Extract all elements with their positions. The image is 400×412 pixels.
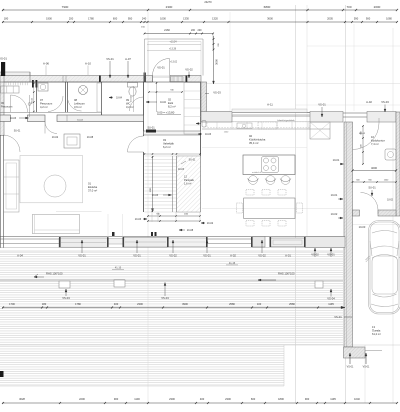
- svg-text:41,15: 41,15: [115, 267, 122, 270]
- svg-text:A-02: A-02: [366, 100, 372, 104]
- svg-text:10-02: 10-02: [52, 136, 59, 139]
- svg-text:240: 240: [142, 16, 147, 20]
- svg-text:600: 600: [113, 16, 118, 20]
- svg-text:SU-01: SU-01: [14, 131, 21, 133]
- svg-text:10-04: 10-04: [116, 98, 123, 100]
- svg-text:VS-01: VS-01: [106, 57, 114, 61]
- svg-text:200: 200: [198, 29, 203, 32]
- svg-text:2200: 2200: [79, 397, 85, 401]
- svg-text:61,2 m²: 61,2 m²: [372, 332, 381, 336]
- svg-text:6,2 m²: 6,2 m²: [163, 145, 171, 149]
- svg-text:mööbel all: mööbel all: [252, 172, 262, 174]
- svg-text:1195: 1195: [328, 302, 334, 306]
- svg-text:900: 900: [366, 16, 371, 20]
- svg-text:VS-04: VS-04: [327, 297, 335, 301]
- svg-text:10-03: 10-03: [152, 194, 159, 197]
- svg-text:1780: 1780: [75, 302, 81, 306]
- svg-text:A-11: A-11: [267, 103, 273, 107]
- svg-text:7,4 m²: 7,4 m²: [371, 142, 379, 146]
- svg-text:A-10: A-10: [85, 62, 91, 66]
- svg-text:3600: 3600: [267, 16, 273, 20]
- svg-text:4000: 4000: [371, 166, 377, 170]
- svg-text:10-08: 10-08: [87, 136, 94, 139]
- svg-text:900: 900: [305, 397, 310, 401]
- svg-text:VS-02: VS-02: [311, 253, 319, 257]
- svg-text:3900: 3900: [182, 302, 188, 306]
- svg-text:VS-04: VS-04: [161, 296, 169, 300]
- svg-text:0.00 = +13,80: 0.00 = +13,80: [157, 111, 175, 115]
- svg-text:2580: 2580: [229, 302, 235, 306]
- svg-text:590: 590: [354, 16, 359, 20]
- svg-text:+13,38: +13,38: [169, 49, 177, 51]
- svg-text:A-01: A-01: [285, 254, 291, 258]
- svg-text:Leiliruum: Leiliruum: [74, 102, 86, 106]
- svg-text:35,4 m²: 35,4 m²: [249, 141, 259, 145]
- svg-text:1040: 1040: [354, 397, 360, 401]
- svg-text:24270: 24270: [204, 0, 212, 4]
- svg-text:VS-01: VS-01: [327, 253, 335, 257]
- svg-text:VS-01: VS-01: [203, 254, 211, 258]
- svg-text:3,6 m²: 3,6 m²: [74, 105, 82, 109]
- svg-text:Esik: Esik: [168, 101, 174, 105]
- svg-text:VS-01: VS-01: [363, 366, 370, 369]
- svg-text:2300: 2300: [169, 397, 175, 401]
- svg-text:1800: 1800: [278, 397, 284, 401]
- svg-text:A-06: A-06: [43, 62, 49, 66]
- svg-text:37,0 m²: 37,0 m²: [88, 189, 97, 193]
- svg-text:RHS 100*100: RHS 100*100: [278, 272, 295, 276]
- svg-text:3028: 3028: [19, 397, 25, 401]
- svg-text:10-02: 10-02: [331, 212, 338, 216]
- svg-text:7900: 7900: [62, 5, 69, 9]
- svg-text:2300: 2300: [137, 302, 143, 306]
- svg-text:600: 600: [361, 144, 363, 147]
- svg-text:1000: 1000: [160, 16, 166, 20]
- svg-text:10-02: 10-02: [207, 222, 214, 225]
- svg-text:900: 900: [361, 131, 363, 134]
- svg-text:1780: 1780: [88, 16, 94, 20]
- svg-text:200: 200: [69, 16, 74, 20]
- svg-text:SU-01: SU-01: [189, 159, 196, 162]
- svg-text:2300: 2300: [166, 5, 173, 9]
- svg-text:10-04: 10-04: [77, 120, 83, 122]
- svg-text:1330: 1330: [183, 16, 189, 20]
- svg-text:950: 950: [128, 16, 133, 20]
- svg-text:VS-01: VS-01: [133, 254, 141, 258]
- svg-text:SU-01: SU-01: [147, 126, 155, 130]
- svg-text:VS-02: VS-02: [258, 254, 266, 258]
- svg-text:01: 01: [88, 182, 91, 186]
- svg-text:6800: 6800: [264, 5, 271, 9]
- svg-text:1320: 1320: [212, 16, 218, 20]
- svg-text:10-02: 10-02: [160, 102, 167, 104]
- svg-text:700: 700: [346, 5, 351, 9]
- svg-text:Vahekäik: Vahekäik: [163, 142, 175, 146]
- svg-text:100: 100: [257, 302, 262, 306]
- svg-text:10-03: 10-03: [10, 117, 17, 120]
- svg-text:+13,24: +13,24: [169, 41, 177, 43]
- svg-text:10-03: 10-03: [205, 133, 212, 136]
- svg-text:200: 200: [218, 43, 220, 46]
- svg-text:VS-02: VS-02: [185, 68, 193, 72]
- svg-text:SU-02: SU-02: [31, 97, 33, 104]
- svg-text:400: 400: [200, 397, 205, 401]
- svg-text:02: 02: [168, 98, 171, 102]
- svg-text:2580: 2580: [289, 302, 295, 306]
- svg-text:VS-01: VS-01: [318, 103, 326, 107]
- svg-text:03: 03: [163, 138, 166, 142]
- svg-text:400: 400: [114, 302, 119, 306]
- svg-text:10-02: 10-02: [131, 95, 133, 101]
- svg-text:2160: 2160: [164, 28, 170, 32]
- svg-text:Pesuruum: Pesuruum: [40, 102, 53, 106]
- svg-text:10-01: 10-01: [331, 193, 338, 197]
- svg-text:VS-01: VS-01: [334, 315, 342, 319]
- svg-text:VS-03: VS-03: [213, 91, 221, 95]
- svg-text:10-03: 10-03: [359, 225, 366, 229]
- svg-text:VS-01: VS-01: [347, 366, 354, 369]
- svg-text:2300: 2300: [225, 397, 231, 401]
- svg-text:41,15: 41,15: [229, 262, 236, 265]
- svg-text:900: 900: [114, 397, 119, 401]
- svg-text:VS-03: VS-03: [381, 100, 389, 104]
- svg-text:A-02: A-02: [230, 254, 236, 258]
- svg-text:8,2 m²: 8,2 m²: [168, 105, 176, 109]
- svg-text:Panipaik: Panipaik: [184, 178, 195, 182]
- svg-text:3000: 3000: [215, 59, 219, 65]
- svg-text:10-03: 10-03: [135, 218, 142, 221]
- svg-text:1080: 1080: [386, 16, 392, 20]
- svg-text:Kodukontor: Kodukontor: [371, 139, 385, 143]
- svg-text:09: 09: [126, 98, 129, 102]
- svg-text:2005: 2005: [327, 16, 333, 20]
- svg-text:1900: 1900: [46, 16, 52, 20]
- svg-text:10-03: 10-03: [178, 168, 185, 171]
- svg-text:10-01: 10-01: [333, 158, 340, 162]
- svg-text:1700: 1700: [9, 302, 15, 306]
- svg-text:RHS 100*100: RHS 100*100: [46, 272, 63, 276]
- svg-text:1195: 1195: [330, 397, 336, 401]
- svg-text:600: 600: [251, 397, 256, 401]
- svg-text:07: 07: [40, 98, 43, 102]
- svg-text:A-07: A-07: [125, 57, 131, 61]
- svg-text:SU-01: SU-01: [368, 186, 376, 190]
- svg-text:A-04: A-04: [17, 254, 23, 258]
- svg-text:VS-01: VS-01: [0, 57, 7, 61]
- svg-text:VS-02: VS-02: [169, 254, 177, 258]
- svg-text:08: 08: [74, 98, 77, 102]
- svg-text:180: 180: [4, 16, 9, 20]
- svg-text:180: 180: [42, 302, 47, 306]
- svg-text:külmik/sügavkülmik: külmik/sügavkülmik: [277, 120, 294, 122]
- svg-text:Elutuba: Elutuba: [88, 185, 98, 189]
- svg-text:1,6 m²: 1,6 m²: [184, 182, 191, 186]
- svg-text:4,2 m²: 4,2 m²: [40, 105, 48, 109]
- svg-text:200: 200: [191, 29, 196, 32]
- svg-text:VS-04: VS-04: [62, 296, 70, 300]
- svg-text:10-08: 10-08: [187, 229, 194, 232]
- svg-text:2000: 2000: [374, 5, 381, 9]
- svg-text:1100: 1100: [134, 397, 140, 401]
- svg-text:+13,62: +13,62: [170, 62, 178, 64]
- svg-text:VS-01: VS-01: [157, 66, 165, 70]
- svg-text:10-02: 10-02: [387, 200, 394, 202]
- svg-text:VS-01: VS-01: [78, 254, 86, 258]
- svg-text:10: 10: [371, 135, 374, 139]
